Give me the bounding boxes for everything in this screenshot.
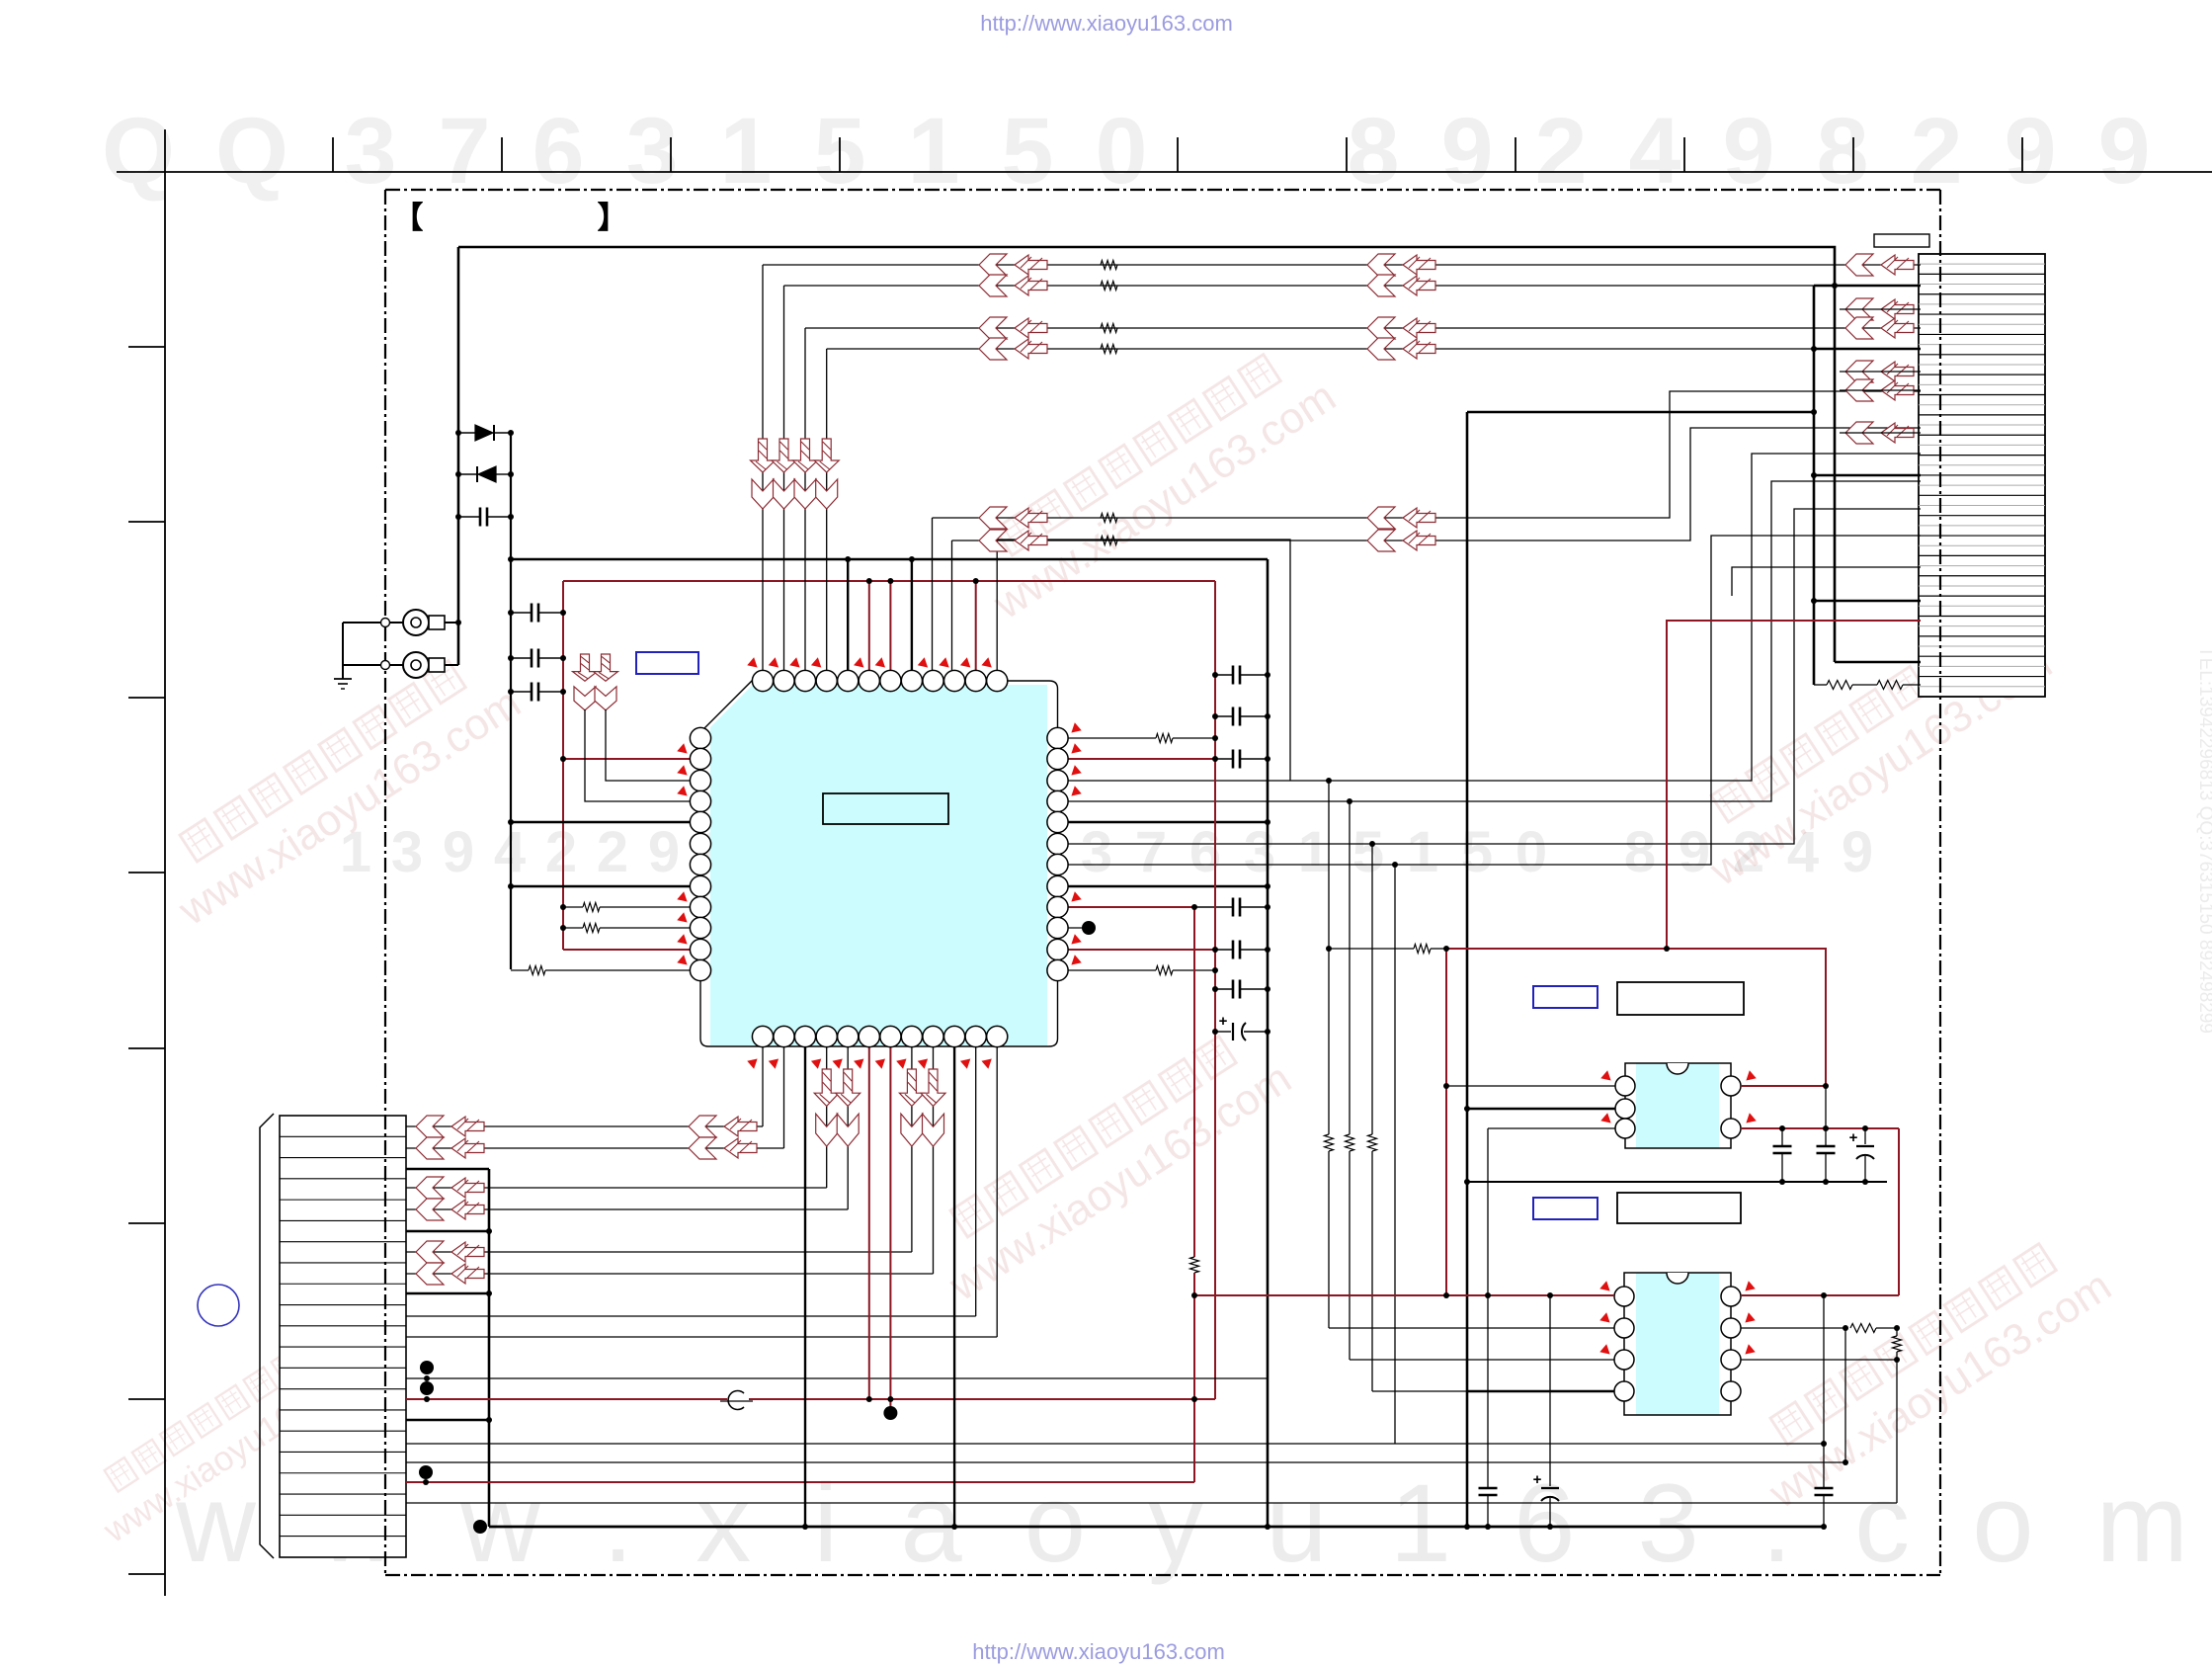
capacitor C9	[1215, 949, 1233, 951]
arrow pair connector row 268	[1845, 254, 1873, 276]
wire row 1332	[406, 1315, 976, 1317]
dash-dot boundary left	[384, 190, 386, 1575]
dash-dot boundary top	[385, 189, 1940, 191]
wire vertical 1868	[1844, 1328, 1846, 1462]
arrow pair right row 268	[1367, 254, 1395, 276]
arrow pair CN2 row 1202	[416, 1177, 444, 1199]
wire IC1 left pin9	[563, 906, 583, 908]
wire IC3 pin3 row	[1350, 1359, 1614, 1361]
wire bottom pin3 drop thick	[804, 1047, 806, 1527]
wire drop 1345	[1328, 781, 1330, 1134]
wire drop 1366	[1349, 801, 1351, 1134]
svg-text:3: 3	[1244, 820, 1275, 884]
svg-text:9: 9	[1842, 820, 1873, 884]
arrow pair right row 353	[1367, 338, 1395, 360]
svg-text:9: 9	[443, 820, 474, 884]
arrow pair mid row 1140	[689, 1116, 716, 1137]
capacitor C14 electrolytic	[1864, 1128, 1866, 1144]
wire hook pin6	[1058, 509, 1922, 844]
wire row 1480	[406, 1461, 1845, 1463]
svg-text:5: 5	[1352, 820, 1384, 884]
svg-text:8: 8	[1817, 99, 1869, 204]
connector CN2 shell bracket	[260, 1114, 274, 1558]
wire top pin 4 riser	[826, 349, 828, 671]
capacitor C6	[1215, 715, 1233, 717]
resistor R row 268	[1101, 261, 1117, 270]
arrow pair mid row 1162	[689, 1137, 716, 1159]
svg-text:http://www.xiaoyu163.com: http://www.xiaoyu163.com	[980, 11, 1233, 36]
wire bottom pin8 drop	[911, 1047, 913, 1252]
wire row 1140	[406, 1125, 763, 1127]
wire top bus	[458, 247, 1835, 662]
wire top pin 10 riser	[951, 541, 953, 671]
resistor R row 289	[1101, 282, 1117, 291]
wire hook pin3	[1058, 454, 1922, 781]
page border left	[164, 129, 166, 1596]
wire thick vertical 1485	[1466, 412, 1469, 1527]
wire top pin 9 riser	[932, 518, 934, 671]
wire red bus 1311 left	[1194, 1294, 1614, 1296]
wire IC2 pin1	[1446, 1085, 1615, 1087]
wire IC1 right pin2 red	[1058, 758, 1216, 760]
main IC IC1 top pins	[752, 670, 773, 691]
junction dots	[455, 430, 461, 436]
page border top	[117, 171, 2212, 173]
arrow pair connector row 313	[1845, 298, 1873, 320]
wire hook pin4	[1058, 481, 1922, 801]
svg-text:1: 1	[1407, 820, 1438, 884]
wire row 1395	[406, 1377, 1268, 1379]
wire stub row 574	[1732, 567, 1921, 596]
dash-dot boundary bottom	[385, 1574, 1940, 1576]
wire top pin 11 riser	[975, 581, 977, 671]
capacitor C7	[1215, 758, 1233, 760]
wire vertical 1506	[1487, 1128, 1489, 1488]
arrow cluster below IC1 b	[899, 1069, 924, 1106]
op-amp IC2 pins	[1615, 1076, 1635, 1096]
wire top pin 2 riser	[783, 286, 785, 671]
capacitor C5	[1215, 674, 1233, 676]
wire stub connector row 395	[1840, 389, 1921, 391]
diode D2	[458, 473, 476, 475]
svg-text:+: +	[1219, 1013, 1228, 1030]
wire IC3 right pin2	[1741, 1327, 1845, 1329]
border ticks top	[332, 137, 334, 172]
connector CN2 bottom left	[280, 1116, 406, 1557]
main IC IC1 outline	[700, 681, 1058, 1046]
resistor R20	[1414, 945, 1431, 954]
capacitor C8	[1194, 906, 1233, 908]
wire IC1 right pin12	[1058, 969, 1157, 971]
wire signal row 524	[933, 391, 1922, 518]
wire signal row 332	[805, 327, 1921, 329]
wire drop 1412	[1394, 865, 1396, 1444]
wire red row 1500	[406, 1481, 1194, 1483]
wire top pin 1 riser	[762, 265, 764, 671]
arrow pair mid row 268	[979, 254, 1007, 276]
wire IC1 right pin9 red	[1058, 906, 1195, 908]
wire thick stub 289	[1814, 285, 1921, 288]
resistor chain row 693	[1814, 684, 1827, 686]
wire red bus 1311 right	[1741, 1294, 1899, 1296]
wire row 1162	[406, 1147, 784, 1149]
svg-text:9: 9	[1441, 99, 1494, 204]
border ticks left	[128, 346, 165, 348]
arrow cluster top of IC1	[751, 439, 776, 472]
svg-text:+: +	[1533, 1471, 1542, 1488]
svg-text:Q: Q	[215, 99, 288, 204]
wire bottom pin7 drop red	[889, 1047, 891, 1410]
arrow pair connector row 376	[1845, 361, 1873, 382]
capacitor C2	[511, 612, 532, 614]
wire thick row 417	[1467, 411, 1814, 414]
ground GND1	[342, 623, 344, 679]
capacitor C10	[1215, 988, 1233, 990]
wire red connector feed	[1667, 621, 1921, 949]
svg-text:6: 6	[533, 99, 585, 204]
wire IC1 left pin2 red	[563, 758, 692, 760]
main IC IC1 body	[710, 685, 1047, 1045]
svg-text:0: 0	[1516, 820, 1547, 884]
wire thick vertical 1283	[1267, 559, 1270, 1527]
wire IC2 right pin2 red	[1741, 1127, 1899, 1129]
capacitor C1	[458, 516, 480, 518]
wire IC1 left pin3	[606, 709, 692, 781]
diode D1	[458, 432, 475, 434]
wire vertical 1846	[1823, 1295, 1825, 1488]
main IC IC1 pin marks bottom	[748, 1059, 757, 1068]
svg-text:1: 1	[1298, 820, 1330, 884]
main IC IC1 left pins	[690, 727, 710, 748]
wire top pin 12 riser	[996, 540, 998, 671]
wire thick stub 1246	[406, 1230, 489, 1233]
wire stub connector row 438	[1840, 432, 1921, 434]
svg-text:3: 3	[391, 820, 423, 884]
wire IC3 pin4 row	[1372, 1390, 1466, 1392]
wire IC2 pin2 thick	[1467, 1108, 1615, 1110]
svg-text:9: 9	[2005, 99, 2057, 204]
wire row 1202	[406, 1187, 827, 1189]
arrow pair mid row 332	[979, 317, 1007, 339]
wire bottom pin4 drop	[826, 1047, 828, 1188]
wire IC1 right pin8 thick	[1058, 885, 1269, 887]
fat dot bus 1545	[473, 1520, 487, 1534]
wire IC1 right pin5 thick	[1058, 821, 1269, 823]
arrow cluster left of IC1	[573, 654, 598, 681]
svg-text:TEL:13942296813 QQ:376315150 8: TEL:13942296813 QQ:376315150 892498299	[2195, 646, 2212, 1034]
svg-text:3: 3	[1081, 820, 1112, 884]
wire stub connector row 376	[1840, 371, 1921, 373]
arrow pair CN2 row 1224	[416, 1199, 444, 1220]
wire bottom pin11 drop	[975, 1047, 977, 1316]
wire thick stub 1309	[406, 1292, 489, 1295]
wire row 1461	[406, 1443, 1824, 1445]
resistor R row 547	[1101, 537, 1117, 545]
wire drop 1389	[1371, 844, 1373, 1134]
wire thick bus 1545	[489, 1526, 1824, 1529]
wire IC1 left pin4	[585, 709, 692, 801]
wire IC1 left pin12	[511, 969, 529, 971]
svg-text:6: 6	[1189, 820, 1221, 884]
svg-text:】: 】	[598, 201, 628, 235]
wire red vertical 1464	[1445, 949, 1447, 1295]
wire row 1224	[406, 1208, 848, 1210]
connector CN1 right	[1919, 254, 2045, 697]
wire red vertical 1922	[1898, 1128, 1900, 1295]
svg-text:8: 8	[1624, 820, 1656, 884]
wire IC3 right pin3	[1741, 1359, 1897, 1361]
wire IC1 right pin11 red	[1058, 949, 1216, 951]
svg-text:http://www.xiaoyu163.com: http://www.xiaoyu163.com	[972, 1639, 1225, 1664]
arrow pair right row 524	[1367, 507, 1395, 529]
resistor R21	[1850, 1324, 1876, 1333]
wire vertical 1569 electrolytic	[1549, 1295, 1551, 1486]
wire signal row 353	[827, 348, 1921, 350]
main IC IC1 pin marks top	[748, 658, 757, 667]
wire pin12 upper run	[997, 540, 1290, 781]
wire vertical V2	[510, 433, 512, 969]
wire IC1 left pin10	[563, 927, 583, 929]
arrow pair CN2 row 1162	[416, 1137, 444, 1159]
wire red row 1416	[406, 1398, 727, 1400]
wire bottom pin10 drop thick	[953, 1047, 955, 1527]
main IC IC1 pin marks right	[1072, 723, 1081, 732]
wire IC2 right pin1 red	[1741, 1085, 1826, 1087]
arrow pair connector row 332	[1845, 317, 1873, 339]
wire IC1 left pin7 thick	[511, 885, 692, 887]
wire IC1 left pin11 red	[563, 949, 692, 951]
wire bottom pin5 drop	[847, 1047, 849, 1209]
wire thick stub 1437	[406, 1419, 489, 1422]
svg-text:9: 9	[648, 820, 680, 884]
wire ground row 1196	[1467, 1181, 1887, 1183]
wire thick stub 1183	[406, 1168, 489, 1171]
wire row 1353	[406, 1336, 997, 1338]
op-amp IC3 body	[1636, 1273, 1719, 1415]
arrow pair CN2 row 1140	[416, 1116, 444, 1137]
wire thick vertical 1836	[1813, 286, 1816, 685]
wire row 960	[1329, 948, 1414, 950]
wire signal row 547	[952, 428, 1922, 541]
svg-text:8: 8	[1348, 99, 1400, 204]
label box IC2 blue	[1533, 986, 1598, 1008]
op-amp IC2 body	[1636, 1063, 1719, 1148]
wire IC3 pin2 row	[1329, 1327, 1614, 1329]
svg-text:【: 【	[393, 201, 424, 235]
wire red vertical 1230	[1214, 581, 1216, 1399]
wire top pin 5 riser	[847, 559, 849, 671]
wire bottom pin1 drop	[762, 1047, 764, 1126]
arrow pair CN2 row 1267	[416, 1241, 444, 1263]
svg-text:1: 1	[720, 99, 773, 204]
wire red vertical 570	[562, 581, 564, 950]
wire IC2 pin3	[1488, 1127, 1615, 1129]
arrow pair mid row 289	[979, 275, 1007, 296]
wire bottom pin12 drop	[996, 1047, 998, 1337]
capacitor C3	[511, 657, 532, 659]
svg-text:3: 3	[345, 99, 397, 204]
wire signal row 268	[763, 264, 1921, 266]
connector CN1 label box	[1874, 234, 1929, 247]
wire thick vertical 495	[488, 1169, 491, 1527]
wire top pin 8 riser	[911, 559, 913, 671]
connector CN2 blue circle mark	[198, 1285, 239, 1326]
wire red bus 588	[563, 580, 1215, 582]
wire IC1 right pin10 stub	[1058, 927, 1084, 929]
arrow pair mid row 524	[979, 507, 1007, 529]
resistor R22 vertical	[1896, 1328, 1898, 1336]
arrow pair right row 332	[1367, 317, 1395, 339]
svg-text:5: 5	[1002, 99, 1054, 204]
wire vertical 1848 lower	[1825, 1086, 1827, 1146]
wire row 1267	[406, 1251, 912, 1253]
wire red row 960	[1431, 948, 1446, 950]
arrow cluster below IC1 a	[814, 1069, 839, 1106]
wire thick stub row 670	[1835, 661, 1921, 664]
wire IC1 right pin1	[1058, 737, 1157, 739]
wire IC1 left pin5 thick	[511, 821, 692, 823]
wire bottom pin6 drop red	[868, 1047, 870, 1399]
wire top pin 6 riser	[868, 581, 870, 671]
main IC IC1 label box	[823, 793, 948, 824]
svg-text:9: 9	[1723, 99, 1775, 204]
arrow pair mid row 547	[979, 530, 1007, 551]
svg-text:2: 2	[545, 820, 577, 884]
svg-text:+: +	[1849, 1129, 1858, 1146]
arrow pair connector row 395	[1845, 379, 1873, 401]
arrow pair CN2 row 1289	[416, 1263, 444, 1285]
jack J1	[403, 610, 429, 635]
arrow pair mid row 353	[979, 338, 1007, 360]
label box IC3	[1617, 1193, 1741, 1223]
wire vertical 1920 lower	[1896, 1360, 1898, 1503]
op-amp IC3 pins	[1614, 1287, 1634, 1306]
main IC IC1 bottom pins	[752, 1026, 773, 1046]
wire thick stub 481	[1814, 474, 1921, 477]
label box IC3 blue	[1533, 1198, 1598, 1219]
wire top pin 7 riser	[889, 581, 891, 671]
jack J2	[403, 652, 429, 678]
arrow pair connector row 438	[1845, 422, 1873, 444]
resistor R row 524	[1101, 514, 1117, 523]
label box blue top left	[636, 652, 698, 674]
label box IC2	[1617, 982, 1744, 1015]
capacitor C11 electrolytic	[1215, 1031, 1231, 1033]
wire signal row 289	[784, 285, 1922, 287]
wire thick stub 353	[1814, 348, 1921, 351]
svg-text:9: 9	[2098, 99, 2151, 204]
dash-dot boundary right	[1939, 190, 1941, 1575]
watermark diagonal stamps	[145, 641, 529, 936]
wire red vertical 1209	[1193, 907, 1195, 1257]
wire hook pin7	[1058, 536, 1922, 865]
svg-text:7: 7	[439, 99, 491, 204]
wire bottom pin9 drop	[933, 1047, 935, 1274]
main IC IC1 right pins	[1047, 727, 1068, 748]
svg-text:2: 2	[1911, 99, 1963, 204]
svg-text:0: 0	[1096, 99, 1148, 204]
svg-text:7: 7	[1135, 820, 1167, 884]
arrow pair right row 547	[1367, 530, 1395, 551]
wire bottom pin2 drop	[783, 1047, 785, 1148]
wire stub connector row 313	[1840, 308, 1921, 310]
svg-text:2: 2	[597, 820, 628, 884]
svg-text:1: 1	[908, 99, 960, 204]
capacitor C12	[1781, 1128, 1783, 1146]
capacitor C4	[511, 691, 532, 693]
main IC IC1 pin marks left	[678, 744, 687, 753]
wire row 1521	[406, 1502, 1897, 1504]
wire top pin 3 riser	[804, 328, 806, 671]
wire row 1289	[406, 1273, 934, 1275]
resistor R row 353	[1101, 345, 1117, 354]
no-connect bullets	[420, 1361, 434, 1374]
svg-text:2: 2	[1535, 99, 1588, 204]
wire thick bus 566	[511, 558, 1268, 561]
svg-text:Q: Q	[102, 99, 175, 204]
wire thick stub 608	[1814, 600, 1921, 603]
svg-text:4: 4	[1629, 99, 1681, 204]
resistor R row 332	[1101, 324, 1117, 333]
crossover arc	[728, 1391, 744, 1410]
arrow pair right row 289	[1367, 275, 1395, 296]
wire vertical V1	[457, 247, 460, 665]
